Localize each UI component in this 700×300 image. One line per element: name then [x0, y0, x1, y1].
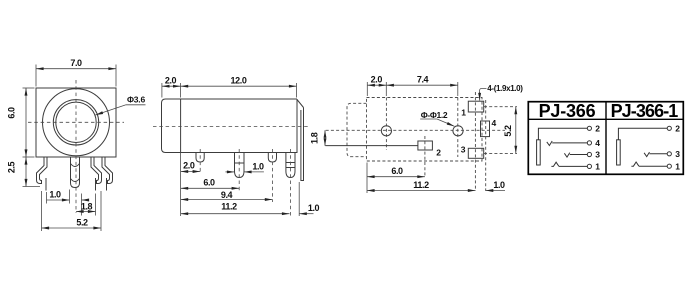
svg-text:9.4: 9.4: [221, 190, 233, 200]
dimension 1.0 pin B: [225, 171, 234, 173]
side view horizontal centerline: [153, 126, 308, 128]
dimension 1.8 offset: [324, 130, 326, 146]
terminal 3 circle: [587, 152, 591, 156]
dimension 11.2 bottom view: [367, 190, 475, 192]
switch contact 4: [547, 141, 552, 146]
front view ring outer: [53, 100, 98, 145]
svg-text:11.2: 11.2: [221, 202, 237, 212]
svg-text:6.0: 6.0: [203, 177, 215, 187]
schematic PJ-366 sleeve bar: [537, 140, 541, 165]
svg-text:2.5: 2.5: [7, 161, 17, 173]
dimension 5.2: [41, 191, 43, 231]
pin B bend line: [235, 162, 245, 164]
switch contact 3: [564, 153, 569, 158]
terminal 2 circle: [587, 126, 591, 130]
wire to terminal 2: [538, 128, 587, 140]
dimension 1.0 right: [299, 213, 313, 215]
front view housing square: [36, 88, 116, 157]
dimension 2.0 bottom: [181, 171, 201, 173]
svg-text:2: 2: [675, 124, 680, 134]
side view flange line: [180, 99, 182, 153]
right mounting plate: [301, 108, 304, 181]
svg-text:3: 3: [675, 149, 680, 159]
pad 4 column: [485, 100, 487, 191]
dimension 2.5: [23, 186, 41, 188]
wire to terminal 1 (-1): [639, 165, 668, 167]
front view ring inner: [56, 102, 96, 142]
pad 3 row dashed: [484, 152, 517, 154]
dimension 1.0 bottom view: [486, 190, 505, 192]
svg-text:3: 3: [595, 150, 600, 160]
svg-text:2.0: 2.0: [371, 75, 383, 85]
pad 3: [468, 148, 483, 158]
svg-text:1.0: 1.0: [252, 161, 264, 171]
svg-text:Φ-Φ1.2: Φ-Φ1.2: [421, 110, 448, 120]
pin A centerline: [199, 149, 201, 174]
dimension 6.0: [23, 87, 35, 89]
svg-text:11.2: 11.2: [413, 180, 429, 190]
left extension line bottom dims: [366, 163, 368, 194]
terminal 1 circle (-1): [667, 164, 671, 168]
dimension 6.0 bottom view: [367, 176, 425, 178]
right leg tail outer: [106, 178, 108, 191]
svg-text:Φ3.6: Φ3.6: [127, 95, 145, 105]
wire to terminal 2 (-1): [618, 128, 667, 140]
center pin crimp arc upper: [71, 164, 80, 167]
svg-text:4-(1.9x1.0): 4-(1.9x1.0): [487, 84, 523, 93]
schematic PJ-366-1 sleeve bar: [617, 140, 621, 165]
label dia 3.6 leader: [126, 104, 146, 106]
front view outer barrel circle: [43, 89, 110, 156]
front view horizontal centerline: [28, 121, 124, 123]
pin C centerline: [271, 149, 273, 202]
sleeve contact 1: [551, 162, 559, 166]
hole circle left: [381, 126, 391, 136]
bottom view barrel protrusion: [347, 103, 367, 156]
flange extension line: [180, 153, 182, 217]
terminal 3 circle (-1): [667, 152, 671, 156]
side pin A: [196, 153, 204, 163]
svg-text:1.8: 1.8: [309, 132, 319, 144]
hole 1 column: [385, 98, 387, 151]
dimension 5.2 vertical: [515, 107, 517, 154]
svg-text:PJ-366: PJ-366: [539, 101, 596, 121]
svg-text:1: 1: [595, 162, 600, 172]
dimension 1.0 center pin: [46, 192, 48, 204]
dimension 2.0 bottom view: [366, 82, 368, 96]
svg-text:2.0: 2.0: [165, 76, 177, 86]
wire to terminal 4: [552, 142, 587, 144]
pin D centerline: [289, 149, 291, 216]
svg-text:1: 1: [461, 108, 466, 118]
svg-text:4: 4: [492, 118, 497, 128]
dimension 2.0 top: [161, 83, 163, 98]
svg-text:2.0: 2.0: [183, 161, 195, 171]
switch contact 3 (-1): [644, 152, 649, 157]
dimension 11.2: [181, 213, 290, 215]
hole 2 column: [457, 98, 459, 158]
table header line: [528, 118, 683, 120]
right bent leg inner: [91, 157, 102, 184]
dimension 9.4: [181, 199, 273, 201]
right bent leg outer: [102, 157, 113, 184]
left leg tail: [45, 178, 47, 191]
pad 4: [481, 121, 490, 137]
terminal 2 circle (-1): [667, 126, 671, 130]
dimension 12.0: [296, 83, 298, 98]
bottom view body outline: [367, 98, 483, 162]
table outer border: [528, 102, 683, 175]
terminal 1 circle: [587, 164, 591, 168]
svg-text:1.0: 1.0: [493, 180, 505, 190]
pad 2 column: [424, 136, 426, 178]
wire to terminal 3 (-1): [650, 153, 668, 155]
table divider: [605, 102, 607, 175]
svg-text:5.2: 5.2: [503, 125, 513, 137]
center pin: [71, 157, 80, 188]
svg-text:6.0: 6.0: [391, 166, 403, 176]
pad 2: [418, 141, 433, 150]
right mounting plate chamfer: [297, 100, 304, 108]
side pin D: [286, 153, 295, 178]
pin D bend line 2: [286, 167, 295, 169]
svg-text:1: 1: [675, 161, 680, 171]
side view body: [162, 99, 298, 153]
pad 2 lead line: [325, 145, 418, 147]
pad 1: [468, 101, 483, 112]
center pin crimp arc lower: [71, 179, 80, 182]
sleeve contact 1 (-1): [631, 162, 639, 166]
svg-text:12.0: 12.0: [231, 76, 247, 86]
svg-text:7.4: 7.4: [417, 75, 429, 85]
svg-text:4: 4: [595, 138, 600, 148]
dimension 7.0: [35, 65, 37, 87]
pin B centerline: [238, 149, 240, 191]
dimension 6.0: [181, 187, 240, 189]
svg-text:1.0: 1.0: [308, 203, 320, 213]
svg-text:2: 2: [436, 148, 441, 158]
svg-text:6.0: 6.0: [7, 107, 17, 119]
svg-text:2: 2: [595, 124, 600, 134]
svg-text:1.0: 1.0: [49, 190, 61, 200]
dimension 7.4: [386, 84, 458, 86]
pads 1-3 column: [474, 92, 476, 191]
side pin B: [235, 153, 245, 178]
svg-text:5.2: 5.2: [76, 218, 88, 228]
side pin C: [268, 153, 276, 163]
svg-text:1.8: 1.8: [81, 202, 93, 212]
terminal 4 circle: [587, 141, 591, 145]
wire to terminal 1: [559, 165, 588, 167]
left bent leg: [37, 157, 48, 184]
plate extension line: [298, 182, 300, 216]
hole circle right: [453, 126, 463, 136]
pad 1 row dashed: [484, 106, 517, 108]
svg-text:7.0: 7.0: [70, 58, 82, 68]
pin D bend line 1: [286, 162, 295, 164]
front view vertical centerline: [75, 80, 77, 213]
bottom view centerline: [326, 129, 505, 131]
svg-text:3: 3: [461, 144, 466, 154]
dimension 1.8: [95, 194, 97, 216]
wire to terminal 3: [570, 154, 588, 156]
right leg tail inner: [95, 178, 97, 191]
svg-text:PJ-366-1: PJ-366-1: [611, 101, 679, 121]
